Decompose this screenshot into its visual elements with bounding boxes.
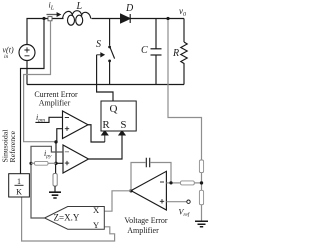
wire top rail right segment [92,18,185,20]
resistor divider bottom [199,190,203,204]
resistor divider top [199,160,203,173]
wire Y input from 1/K [22,197,115,241]
resistor feedback input [181,181,195,185]
wire VEA output to X [105,191,131,211]
op-amp U2 comparator [63,145,89,173]
svg-text:Reference: Reference [8,130,17,162]
svg-text:Q: Q [110,103,118,115]
wire feedback loop [131,163,146,191]
multiplier Z=XY [45,207,105,230]
wire source bottom [26,61,28,85]
wire minus node to divider [166,182,180,184]
current tap square [48,17,52,21]
node dot VEA minus [169,181,172,184]
wire plus input to Vref [166,201,186,203]
wire ipm input [35,117,62,122]
node junction dot on rail [42,17,45,20]
node dot divider mid [200,181,203,184]
wire black sense vin to 1/K [21,19,45,174]
wire gray current sense [24,21,55,142]
svg-text:L: L [76,1,83,12]
wire cmp2 output to S [89,135,123,159]
wire bottom rail [27,84,184,86]
resistor to ground [53,174,57,187]
node dot Z resistor tap [29,162,32,165]
node dot chain B [54,162,57,165]
wire plus input cmp1 [57,129,63,142]
wire chain B down [55,163,57,173]
inductor L [63,11,73,18]
voltage source Vin [19,45,35,61]
ground [49,192,61,198]
svg-text:Voltage Error: Voltage Error [124,216,168,225]
svg-text:C: C [141,45,148,56]
gate drive arrow to switch [97,53,105,57]
capacitor C [155,19,157,49]
node dot VEA apex [129,189,132,192]
terminal Vref [187,200,190,203]
svg-text:R: R [102,119,110,131]
capacitor feedback [146,158,149,168]
resistor R load [183,19,185,43]
node output dot v0 [166,17,169,20]
wire top rail left segment [27,19,64,45]
arrow iL [47,14,58,16]
diode D [121,14,130,23]
svg-text:R: R [172,48,179,59]
wire gate from latch Q [97,55,113,101]
svg-text:Amplifier: Amplifier [127,226,159,235]
op-amp U3 voltage error amplifier [131,171,166,210]
svg-text:1: 1 [17,177,21,186]
svg-text:X: X [93,205,99,215]
svg-text:K: K [16,188,22,197]
wire to ground [201,205,203,221]
svg-text:Y: Y [93,220,99,230]
arrow R input [102,131,108,142]
ground right [195,221,208,227]
wire chain [55,142,57,163]
wire chain B to cmp2 plus [56,162,63,164]
op-amp U1 current comparator [63,111,89,139]
wire cmp1 output to R [88,125,105,142]
node dot chain A [54,140,57,143]
svg-text:S: S [96,39,101,50]
svg-text:in: in [4,54,9,60]
latch box RS [101,101,136,131]
resistor ipy [31,162,35,164]
svg-text:Amplifier: Amplifier [39,99,71,108]
svg-text:D: D [125,3,134,14]
switch S [109,19,111,46]
block 1/K [9,174,30,197]
wire v0 sense [168,20,202,160]
wire Z output to cmp2 minus [31,146,63,218]
wire divider [201,173,203,191]
svg-text:Z=X.Y: Z=X.Y [54,212,80,222]
svg-text:S: S [120,119,126,131]
arrow S input [119,131,125,135]
wire R bottom [183,65,185,85]
